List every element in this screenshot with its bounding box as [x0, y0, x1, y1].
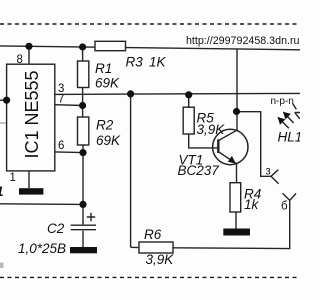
LED triangle partial [293, 104, 300, 119]
LED light arrow 2 [278, 117, 289, 128]
wire R2 bottom to C2 node [82, 145, 84, 224]
top dashed border [0, 23, 300, 25]
svg-text:R1: R1 [95, 61, 112, 76]
svg-text:1: 1 [0, 184, 4, 199]
wire pin8 drop [28, 46, 30, 64]
junction pin3 [127, 90, 134, 97]
resistor R1 [82, 46, 84, 61]
svg-text:R6: R6 [144, 227, 162, 242]
svg-text:3,9K: 3,9K [146, 252, 175, 267]
svg-text:IC1 NE555: IC1 NE555 [22, 70, 42, 158]
wire emitter down [236, 164, 238, 183]
svg-text:http://299792458.3dn.ru: http://299792458.3dn.ru [186, 35, 300, 47]
junction pin7 [79, 102, 86, 109]
wire R4 to ground [235, 212, 237, 229]
wire R1 to R2 vertical [82, 88, 84, 118]
wire left gray stub [0, 122, 7, 124]
left edge cut artifact [0, 263, 4, 269]
wire pin3 output rail [55, 93, 300, 94]
svg-text:1k: 1k [244, 197, 260, 212]
junction pin6 [79, 149, 86, 156]
resistor R5 [188, 95, 190, 107]
transistor VT1 [213, 129, 248, 164]
svg-text:1K: 1K [149, 55, 167, 70]
ground pin1 [19, 188, 43, 194]
wire R6 right to contact b [173, 200, 290, 248]
junction R1 top [79, 43, 86, 50]
resistor R6 [131, 246, 139, 248]
svg-text:8: 8 [17, 54, 23, 66]
junction R5 top [185, 91, 192, 98]
resistor R2 [78, 117, 89, 145]
svg-text:1: 1 [10, 172, 16, 184]
svg-text:3,9K: 3,9K [197, 122, 226, 137]
junction C2 node [79, 201, 86, 208]
wire pin3 node to R6 vertical [130, 94, 132, 247]
svg-text:6: 6 [58, 140, 64, 152]
wire left stub pin2 [0, 99, 11, 101]
wire left rail to C2 node [0, 203, 83, 206]
wire pin1 to ground [28, 171, 30, 188]
wire pin6 stub [55, 151, 83, 154]
svg-text:з: з [266, 166, 271, 178]
C2 plus sign [87, 213, 95, 221]
junction collector node [233, 108, 240, 115]
bottom dashed border [0, 276, 300, 278]
svg-text:HL1: HL1 [278, 130, 301, 145]
wire Vcc top rail [0, 46, 300, 50]
wire R5 to base [189, 134, 218, 148]
LED light arrow 1 [283, 112, 293, 123]
svg-text:7: 7 [58, 94, 64, 106]
IC1 NE555 box [7, 64, 55, 171]
wire collector node to contact z [237, 112, 272, 177]
contact z [271, 170, 279, 184]
svg-text:BC237: BC237 [178, 163, 220, 178]
svg-text:69K: 69K [96, 133, 121, 148]
capacitor C2 [71, 224, 96, 226]
resistor R3 [95, 41, 126, 50]
svg-text:R3: R3 [126, 55, 144, 70]
svg-text:1,0*25В: 1,0*25В [18, 241, 66, 256]
svg-text:n-p-n: n-p-n [271, 96, 294, 107]
ground R4 [223, 229, 250, 236]
junction pin8 [25, 43, 32, 50]
wire pin7 stub [55, 104, 83, 107]
svg-text:69K: 69K [95, 76, 120, 91]
ground C2 [70, 247, 97, 253]
junction IC left [3, 97, 10, 104]
svg-text:C2: C2 [47, 221, 65, 236]
contact b [283, 193, 297, 200]
svg-text:б: б [281, 201, 288, 213]
svg-text:R2: R2 [96, 118, 114, 133]
resistor R4 [230, 183, 241, 212]
wire collector up [236, 49, 238, 131]
